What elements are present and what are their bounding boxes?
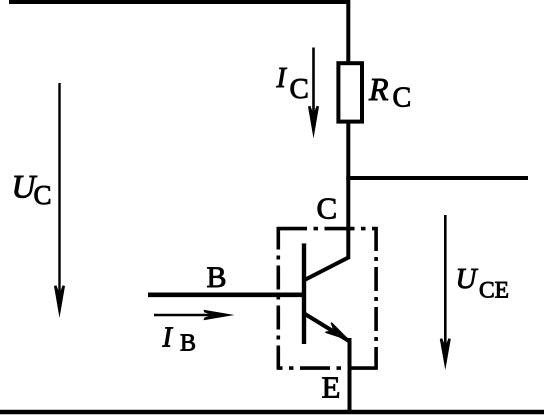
- wire bottom rail: [0, 410, 544, 415]
- svg-text:I: I: [162, 322, 174, 353]
- svg-text:C: C: [34, 180, 52, 210]
- label RC value: [368, 71, 411, 114]
- arrow UC voltage arrow: [54, 83, 65, 318]
- svg-text:C: C: [393, 83, 412, 114]
- svg-text:C: C: [317, 191, 338, 226]
- label IC: [276, 63, 309, 105]
- svg-text:B: B: [207, 261, 227, 294]
- svg-text:C: C: [290, 73, 309, 105]
- svg-text:E: E: [322, 370, 341, 405]
- arrow UCE voltage arrow: [440, 215, 451, 370]
- wire emitter vertical down to bottom rail: [348, 338, 352, 412]
- svg-text:B: B: [180, 331, 196, 357]
- label UC: [12, 169, 52, 210]
- arrow IB current arrow: [154, 310, 235, 320]
- wire right horizontal output wire: [346, 176, 528, 180]
- wire collector vertical from resistor to transistor with bend to base bar: [305, 122, 349, 281]
- svg-text:CE: CE: [479, 277, 509, 303]
- svg-text:U: U: [456, 263, 479, 295]
- arrow IC current arrow: [308, 48, 319, 139]
- svg-text:R: R: [368, 71, 389, 107]
- label UCE: [456, 263, 510, 303]
- transistor outline dash-dot box: [277, 227, 378, 370]
- label IB: [162, 322, 197, 356]
- wire base input wire: [148, 292, 304, 297]
- svg-text:I: I: [276, 63, 288, 94]
- resistor RC: [338, 63, 362, 121]
- transistor Q emitter diagonal with arrow: [305, 314, 349, 341]
- wire top supply rail with corner into collector branch: [9, 2, 348, 62]
- transistor Q base bar: [302, 243, 306, 344]
